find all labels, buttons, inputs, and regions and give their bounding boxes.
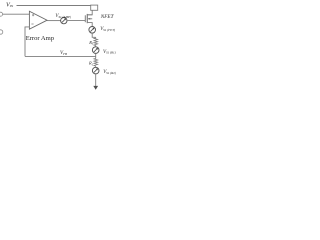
svg-text:VS1 (R1): VS1 (R1) — [103, 50, 116, 55]
svg-text:VFB: VFB — [60, 51, 67, 56]
probe V_S1(AMP) — [61, 17, 67, 23]
svg-text:NFET: NFET — [100, 14, 115, 20]
transistor Q1 source lead — [88, 23, 93, 27]
transistor Q1 NFET channel bar — [86, 14, 88, 23]
svg-text:VS1 (AMP): VS1 (AMP) — [55, 14, 71, 19]
wire source jog — [92, 33, 96, 37]
svg-text:R1: R1 — [88, 61, 94, 67]
wire gate — [67, 20, 85, 22]
resistor R_1 zigzag — [94, 58, 98, 68]
load box — [91, 5, 98, 10]
svg-text:VS1 (R2): VS1 (R2) — [103, 70, 116, 75]
svg-text:Error Amp: Error Amp — [26, 35, 55, 42]
wire load to drain — [88, 10, 93, 15]
transistor Q1 NFET gate bar — [84, 15, 86, 22]
wire Vin top rail — [17, 5, 91, 7]
probe V_S1(R1) — [92, 47, 99, 54]
transistor Q1 body arrow — [88, 18, 92, 20]
wire noninverting input — [3, 13, 30, 15]
probe V_S1(FET) — [89, 27, 96, 34]
op-amp plus sign — [32, 14, 34, 16]
node Vin terminal — [0, 12, 3, 16]
resistor R_s zigzag — [94, 37, 98, 46]
probe V_S1(R2) — [92, 67, 99, 74]
node DAC terminal — [0, 30, 3, 34]
wire inverting input stub — [25, 27, 29, 57]
op-amp minus sign — [31, 23, 33, 25]
svg-text:VS1 (FET): VS1 (FET) — [100, 27, 115, 32]
wire op-amp output — [47, 20, 60, 22]
svg-text:VIN: VIN — [6, 1, 14, 8]
arrow current direction — [93, 86, 98, 90]
op-amp U1 Error Amp — [29, 11, 47, 29]
wire feedback bottom — [25, 55, 96, 57]
transistor Q1 drain lead — [88, 14, 93, 16]
wire to ground arrow — [95, 74, 97, 87]
wire V_FB junction — [95, 53, 97, 58]
